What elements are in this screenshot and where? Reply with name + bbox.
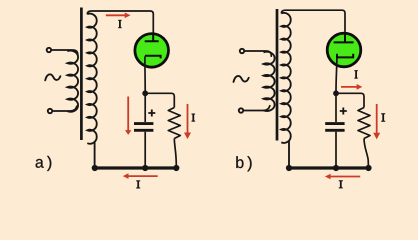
label I beside resistor (a) bbox=[192, 114, 196, 121]
capacitor C2 plates (b) bbox=[325, 124, 344, 131]
current arrow down beside resistor (b) bbox=[373, 104, 380, 139]
wire: secondary top to tube anode (top rail a) bbox=[87, 11, 153, 34]
wire: top terminal to primary (b) bbox=[244, 51, 271, 56]
transformer core (a) bbox=[80, 8, 83, 141]
wire: node to capacitor top (b) bbox=[335, 93, 337, 122]
tube V2 cathode (b) bbox=[337, 54, 353, 58]
node: bus left (a) bbox=[92, 165, 98, 171]
resistor R1 zigzag (a) bbox=[168, 108, 180, 139]
label I top (a) bbox=[118, 20, 121, 27]
node: bus left (b) bbox=[286, 165, 292, 171]
label I bottom (a) bbox=[136, 181, 140, 188]
wire: cathode lead down to node (a) bbox=[144, 57, 146, 92]
wire: capacitor bottom to bus (a) bbox=[144, 132, 146, 167]
node: bus resistor (a) bbox=[173, 165, 179, 171]
transformer secondary winding (a) bbox=[87, 14, 96, 144]
current arrow top (a) bbox=[106, 13, 131, 19]
label a) bbox=[36, 156, 52, 171]
label + for C1 (a) bbox=[148, 110, 155, 117]
resistor R2 zigzag (b) bbox=[358, 108, 370, 139]
wire: secondary bottom lead (b) bbox=[288, 141, 290, 167]
wire: bottom terminal to primary bbox=[52, 106, 76, 111]
wire: secondary bottom lead (a) bbox=[94, 141, 96, 166]
node: cathode junction (a) bbox=[142, 90, 148, 96]
tube V2 envelope (b) bbox=[327, 33, 361, 67]
label b) bbox=[236, 156, 251, 171]
wire: capacitor bottom to bus (b) bbox=[335, 132, 337, 167]
label + for C2 (b) bbox=[340, 108, 347, 115]
tube V1 anode (a) bbox=[145, 35, 159, 42]
ground bus (a) bbox=[93, 166, 177, 169]
current arrow bottom (a) bbox=[123, 173, 158, 179]
node: bus resistor (b) bbox=[365, 165, 371, 171]
node: bus capacitor (b) bbox=[333, 165, 339, 171]
transformer primary winding (b) bbox=[264, 52, 275, 111]
label I bottom (b) bbox=[339, 181, 343, 188]
wire: top terminal to primary bbox=[51, 50, 78, 55]
current arrow down beside resistor (a) bbox=[184, 104, 191, 139]
terminal bottom-left (input b) bbox=[239, 108, 243, 112]
node: cathode junction (b) bbox=[333, 90, 339, 96]
current arrow right below tube (b) bbox=[341, 84, 362, 90]
wire: resistor bottom to bus (b) bbox=[364, 139, 368, 167]
tube V1 cathode (a) bbox=[145, 56, 161, 59]
wire: node to resistor top (b) bbox=[336, 93, 364, 107]
tube V2 anode (b) bbox=[334, 34, 354, 42]
wire: cathode lead down to node (b) bbox=[336, 58, 337, 92]
transformer primary winding (a) bbox=[67, 51, 78, 112]
AC source symbol ~ (b) bbox=[234, 76, 249, 82]
transformer secondary winding (b) bbox=[281, 13, 290, 143]
label I beside resistor (b) bbox=[381, 114, 385, 122]
terminal top-left (input b) bbox=[240, 49, 244, 53]
current arrow down beside capacitor (a) bbox=[125, 97, 131, 135]
wire: node to capacitor top (a) bbox=[144, 93, 146, 122]
wire: secondary top to tube anode (top rail b) bbox=[281, 10, 345, 33]
capacitor C1 plates (a) bbox=[134, 124, 153, 131]
node: bus capacitor (a) bbox=[142, 165, 148, 171]
terminal bottom-left (input a) bbox=[48, 109, 52, 113]
transformer core (b) bbox=[276, 9, 279, 141]
ground bus (b) bbox=[288, 166, 371, 169]
label I below tube (b) bbox=[354, 71, 357, 79]
wire: bottom terminal to primary (b) bbox=[243, 106, 269, 111]
tube V1 envelope (a) bbox=[135, 34, 169, 68]
wire: node to resistor top (a) bbox=[145, 93, 174, 107]
wire: resistor bottom to bus (a) bbox=[174, 139, 176, 167]
current arrow bottom (b) bbox=[325, 174, 360, 180]
terminal top-left (input a) bbox=[47, 48, 51, 52]
AC source symbol ~ bbox=[45, 74, 60, 80]
